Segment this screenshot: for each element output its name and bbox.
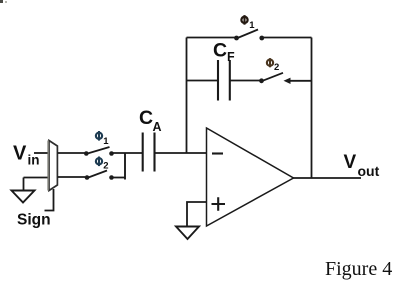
wire: top feedback line left segment	[187, 37, 235, 39]
svg-text:V: V	[13, 143, 27, 165]
svg-text:C: C	[139, 107, 153, 129]
scan artifact top-left corner	[0, 0, 3, 3]
wire: output	[294, 177, 362, 179]
op-amp minus sign	[212, 152, 223, 154]
label phi2 input	[96, 157, 109, 172]
svg-text:Sign: Sign	[17, 212, 51, 229]
capacitor CF plates	[217, 60, 219, 101]
svg-text:F: F	[227, 50, 235, 64]
svg-text:A: A	[153, 120, 162, 134]
ground right	[176, 227, 199, 240]
wire: sign stem from mux	[45, 189, 54, 211]
svg-text:C: C	[213, 40, 227, 62]
wire: CA to opamp inverting input	[155, 152, 207, 154]
op-amp U1 triangle	[207, 128, 294, 226]
switch phi1 input: arm	[88, 147, 110, 154]
switch phi1 input: left dot	[84, 151, 89, 156]
switch phi2 feedback: left contact dot	[259, 78, 264, 83]
svg-text:2: 2	[103, 160, 108, 171]
wire: feedback right vertical	[311, 38, 313, 179]
wire: left ground to mux	[24, 177, 50, 179]
wire: top feedback line right segment	[264, 37, 312, 39]
label phi2 feedback	[267, 58, 279, 73]
wire: phi1 right dot to CA	[112, 152, 143, 154]
svg-text:V: V	[344, 152, 357, 173]
capacitor CA plates	[142, 133, 144, 172]
wire: mux to phi2 switch	[58, 176, 86, 178]
label phi1 input	[96, 131, 109, 147]
wire: CF branch middle segment	[230, 80, 260, 82]
svg-text:in: in	[28, 153, 40, 168]
switch phi2 input: left dot	[85, 175, 90, 180]
svg-text:2: 2	[274, 62, 279, 73]
mux trapezoid	[49, 141, 57, 191]
switch phi2 feedback: arm	[263, 73, 284, 81]
switch phi2 input: right dot	[109, 175, 114, 180]
label phi1 feedback	[241, 15, 255, 31]
switch phi1 feedback: arm	[238, 30, 259, 39]
wire: mux to phi1 switch	[58, 152, 85, 154]
switch phi1 input: right dot	[109, 151, 114, 156]
wire: Vin to mux	[34, 152, 49, 154]
wire: CF branch right segment	[289, 80, 312, 82]
wire: junction bar vertical	[124, 153, 126, 180]
switch phi1 feedback: left contact dot	[234, 36, 239, 41]
svg-text:Figure 4: Figure 4	[325, 258, 392, 280]
wire: non-inverting input to ground	[187, 202, 207, 227]
switch phi2 feedback: right arrow contact	[284, 78, 291, 84]
wire: CF branch left segment	[187, 80, 219, 82]
svg-text:1: 1	[103, 136, 109, 147]
svg-text:out: out	[358, 163, 380, 179]
ground left	[12, 191, 35, 203]
switch phi2 input: arm	[88, 171, 107, 178]
op-amp plus sign	[212, 197, 226, 210]
svg-text:1: 1	[249, 20, 255, 31]
wire: phi2 right dot to junction bar	[112, 177, 126, 179]
wire: feedback left vertical	[186, 38, 188, 154]
wire: left ground stem	[23, 178, 25, 191]
switch phi1 feedback: right contact dot	[259, 36, 264, 41]
